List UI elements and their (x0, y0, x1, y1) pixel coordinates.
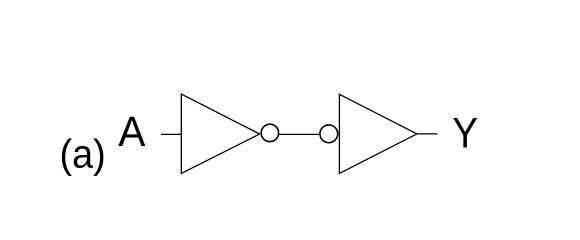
svg-text:Y: Y (452, 108, 478, 156)
svg-text:(a): (a) (60, 132, 106, 176)
label (a) (60, 132, 106, 176)
wire (U2 to output Y) (417, 133, 438, 135)
svg-text:A: A (118, 107, 145, 155)
node Y (output label) (452, 108, 478, 156)
inverter U2 (triangle) (339, 94, 417, 173)
wire (input A to inverter U1) (161, 133, 182, 135)
inverter U2 input bubble (320, 125, 338, 143)
inverter U1 (triangle) (181, 94, 259, 173)
wire (U1 bubble to U2 bubble) (279, 133, 319, 135)
inverter U1 output bubble (261, 124, 278, 141)
node A (input label) (118, 107, 145, 155)
